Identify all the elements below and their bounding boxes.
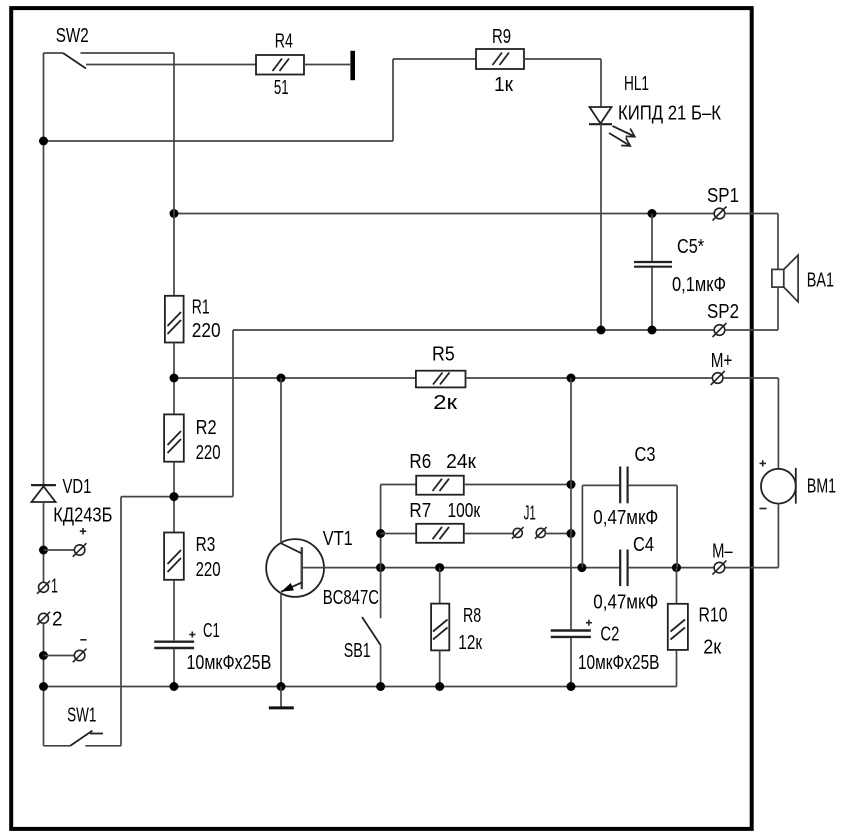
capacitor C5: [634, 214, 672, 331]
terminal SP1: [713, 207, 727, 221]
wire motor drop bottom: [777, 504, 779, 568]
wire R3 bottom to C1: [173, 580, 175, 641]
ground: [269, 687, 294, 708]
node junction C5 top: [648, 209, 657, 218]
terminal minus: [73, 649, 87, 663]
node junction collector M+: [277, 374, 286, 383]
wire M+ line: [174, 377, 416, 379]
wire minus branch: [44, 655, 75, 657]
switch SW1: [44, 731, 122, 746]
node junction rail C1: [170, 682, 179, 691]
wire SP1 line: [174, 213, 714, 215]
label C2 plus: [586, 620, 592, 626]
svg-text:SW1: SW1: [67, 705, 96, 727]
wire R7 right to J1: [464, 533, 513, 535]
wire collector up: [280, 378, 282, 543]
node junction minus branch: [39, 651, 48, 660]
wire motor drop top: [777, 378, 779, 469]
wire plus branch: [44, 549, 75, 551]
resistor R3: [164, 533, 184, 580]
svg-text:SP1: SP1: [707, 185, 739, 207]
node junction rail emitter: [277, 682, 286, 691]
wire R5 right to M+ terminal: [466, 377, 713, 379]
svg-text:220: 220: [196, 442, 221, 464]
wire R2 bottom: [173, 462, 175, 533]
svg-text:M+: M+: [711, 350, 733, 372]
svg-text:10мкФх25В: 10мкФх25В: [578, 652, 660, 674]
pin 2 connector: [37, 612, 50, 625]
wire J1 right: [545, 533, 571, 535]
node junction R7 vertical A: [567, 529, 576, 538]
wire vertical x393: [392, 59, 394, 141]
terminal M+: [711, 371, 725, 385]
svg-text:M–: M–: [712, 540, 733, 562]
svg-text:100к: 100к: [448, 500, 481, 522]
node junction rail R8: [435, 682, 444, 691]
svg-text:BC847C: BC847C: [323, 587, 379, 609]
node junction C3 bracket right R10: [672, 563, 681, 572]
wire SP2 to speaker: [725, 329, 778, 331]
svg-text:VD1: VD1: [63, 476, 92, 498]
wire vertical x233 SP2 down: [232, 330, 234, 497]
svg-text:C3: C3: [635, 444, 656, 466]
svg-text:220: 220: [196, 559, 221, 581]
svg-text:51: 51: [274, 77, 289, 99]
svg-text:SB1: SB1: [344, 640, 371, 662]
svg-text:R8: R8: [463, 605, 481, 627]
pin 1 connector: [37, 581, 50, 594]
wire emitter down: [280, 592, 282, 687]
wire M+ to motor: [723, 377, 778, 379]
wire to R9: [393, 58, 476, 60]
svg-text:C2: C2: [600, 624, 619, 646]
svg-text:1: 1: [51, 576, 58, 598]
resistor R9: [476, 49, 524, 69]
node junction at left rail y141: [39, 137, 48, 146]
svg-text:0,1мкФ: 0,1мкФ: [672, 274, 726, 296]
label BM1 plus: [760, 460, 767, 466]
svg-text:VT1: VT1: [323, 528, 353, 550]
svg-text:BA1: BA1: [807, 270, 834, 292]
resistor R6: [416, 476, 464, 495]
resistor R5: [416, 371, 466, 388]
svg-text:КД243Б: КД243Б: [53, 505, 112, 527]
wire rail pin2 to SW1: [43, 623, 45, 746]
svg-text:R5: R5: [432, 344, 455, 366]
wire vertical x121: [120, 497, 122, 746]
wire R6 right: [464, 484, 571, 486]
label plus sign: [80, 528, 86, 534]
speaker BA1: [772, 255, 798, 302]
node junction x174 SP1: [170, 209, 179, 218]
LED HL1: [589, 107, 635, 146]
node junction R2 R3: [170, 492, 179, 501]
terminal M-: [712, 561, 726, 575]
transistor VT1: [266, 539, 324, 597]
svg-text:C1: C1: [203, 620, 220, 642]
wire SP1 to speaker: [725, 213, 778, 215]
switch SW2: [44, 53, 175, 69]
svg-text:0,47мкФ: 0,47мкФ: [593, 592, 658, 614]
motor BM1: [761, 468, 796, 504]
wire M- extension to motor: [725, 567, 779, 569]
svg-text:2к: 2к: [703, 637, 721, 659]
node junction C5 bottom: [648, 326, 657, 335]
switch SB1: [362, 617, 381, 687]
wire vertical A x571: [570, 378, 572, 629]
wire junction line y496: [121, 496, 233, 498]
node junction R8 top: [435, 563, 444, 572]
wire R4 right: [304, 64, 350, 66]
wire down to HL1: [600, 59, 602, 107]
node junction vertical A M+: [567, 374, 576, 383]
svg-text:220: 220: [192, 320, 221, 342]
wire R9 right: [524, 58, 601, 60]
svg-text:R3: R3: [196, 534, 216, 556]
svg-text:2: 2: [52, 609, 63, 631]
node junction rail C2: [567, 682, 576, 691]
node junction R6 vertical A: [567, 480, 576, 489]
node junction x174 M+: [170, 374, 179, 383]
wire speaker drop bottom: [777, 287, 779, 330]
svg-text:2к: 2к: [433, 392, 457, 414]
svg-text:R9: R9: [492, 26, 511, 48]
svg-text:R7: R7: [409, 500, 431, 522]
terminator bar: [350, 51, 355, 80]
svg-text:12к: 12к: [458, 632, 482, 654]
resistor R4: [256, 55, 304, 75]
capacitor C3 bracket: [582, 467, 677, 568]
wire base M- line left: [302, 567, 619, 569]
wire R7 line left: [381, 533, 417, 535]
wire bottom rail: [44, 686, 677, 688]
wire R6 line left: [381, 484, 417, 486]
node junction x380 base: [376, 563, 385, 572]
label C1 plus: [189, 632, 195, 638]
svg-text:R2: R2: [196, 417, 217, 439]
svg-text:R1: R1: [192, 297, 210, 319]
capacitor C4: [620, 550, 627, 587]
resistor R8: [431, 568, 449, 687]
wire horizontal y141: [44, 140, 394, 142]
wire R1 bottom: [173, 343, 175, 415]
wire HL1 down to SP2 line: [600, 124, 602, 330]
svg-text:24к: 24к: [446, 451, 476, 473]
svg-text:BM1: BM1: [807, 476, 836, 498]
resistor R10: [668, 568, 688, 687]
wire SP2 line: [233, 329, 714, 331]
wire left rail upper: [43, 53, 45, 484]
svg-text:R6: R6: [409, 451, 431, 473]
svg-text:HL1: HL1: [624, 73, 649, 95]
svg-text:J1: J1: [524, 503, 536, 525]
wire M- line right: [629, 567, 715, 569]
wire speaker drop top: [777, 214, 779, 270]
svg-text:C5*: C5*: [677, 236, 704, 258]
node junction rail SB1: [376, 682, 385, 691]
wire rail VD1 to plus node: [43, 502, 45, 582]
label BM1 minus: [759, 508, 766, 510]
svg-text:10мкФх25В: 10мкФх25В: [187, 652, 272, 674]
resistor R7: [416, 524, 464, 543]
node junction rail left: [39, 682, 48, 691]
terminal SP2: [713, 323, 727, 337]
svg-text:R4: R4: [275, 31, 293, 53]
svg-text:0,47мкФ: 0,47мкФ: [593, 507, 658, 529]
node junction HL1/SP2: [597, 326, 606, 335]
node junction C3 bracket left: [577, 563, 586, 572]
node junction R7 left: [376, 529, 385, 538]
svg-text:R10: R10: [699, 605, 728, 627]
capacitor C2: [551, 631, 591, 687]
terminal plus: [73, 543, 87, 557]
label minus sign: [80, 639, 86, 641]
wire SW2 to R4: [86, 64, 256, 66]
jumper J1: [512, 527, 547, 539]
svg-text:КИПД 21 Б–К: КИПД 21 Б–К: [618, 103, 721, 125]
diode VD1: [31, 485, 56, 502]
svg-text:1к: 1к: [494, 74, 513, 96]
svg-text:C4: C4: [633, 534, 654, 556]
resistor R1: [165, 296, 184, 343]
capacitor C1: [154, 642, 194, 687]
wire x380 vertical top corner to SB1: [380, 485, 382, 619]
wire x174 vertical SP1 to R1: [173, 53, 175, 296]
svg-text:SW2: SW2: [56, 25, 89, 47]
resistor R2: [164, 414, 184, 461]
node junction plus branch: [39, 546, 48, 555]
svg-text:SP2: SP2: [707, 301, 739, 323]
